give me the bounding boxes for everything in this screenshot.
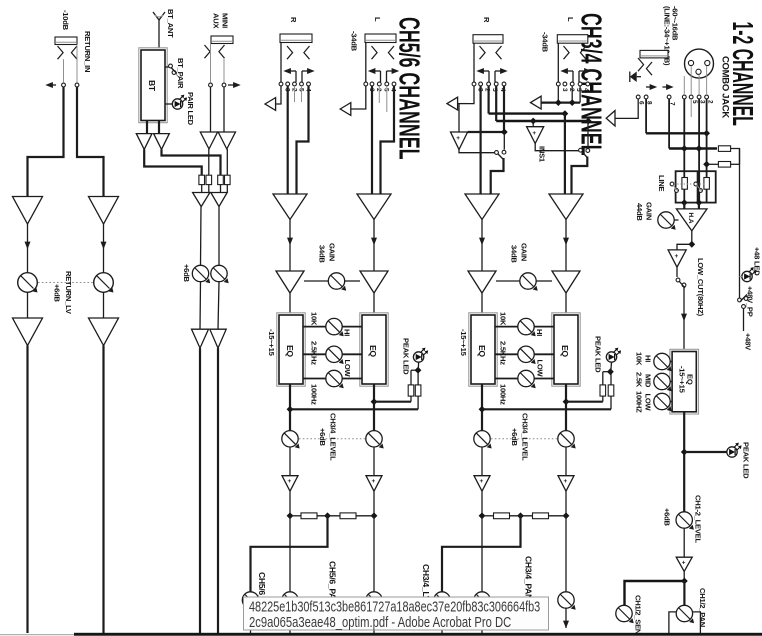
- XLR pin 1: [688, 60, 693, 65]
- resistor CH5/6 mix R: [301, 513, 317, 519]
- wire RETURN sleeve arrow lead: [45, 82, 56, 88]
- wire BT to PAIR LED: [165, 103, 173, 105]
- op-amp AUXBT out R: [210, 329, 226, 348]
- jack CH5/6 R body: [280, 34, 312, 43]
- wire AUX fingers to contacts: [211, 58, 225, 83]
- op-amp CH3/4 R insert buffer: [451, 132, 468, 150]
- resistor CH5/6 peak R: [415, 385, 421, 396]
- svg-text:100Hz: 100Hz: [310, 384, 319, 405]
- resistor CH3/4 mix R: [494, 513, 510, 519]
- EQ box CH5/6 L: [360, 313, 388, 386]
- svg-text:CH3/4_PAN: CH3/4_PAN: [524, 556, 534, 600]
- potentiometer CH5/6 R bottom: [282, 592, 300, 610]
- wire EQ link MID CH3/4: [495, 353, 554, 355]
- svg-text:+6dB: +6dB: [510, 428, 519, 447]
- wire CH3/4 L peak bus: [566, 401, 603, 403]
- wire CH3/4 R preamp to stage2: [479, 220, 485, 272]
- node CH5/6 bus R: [287, 512, 294, 519]
- wire HA out: [691, 231, 693, 244]
- node crossbus lower mid: [530, 118, 537, 125]
- wire peak junction to LED CH3/4: [610, 362, 613, 372]
- wire RETURN jack right wall: [76, 44, 78, 82]
- svg-text:+6dB: +6dB: [663, 508, 672, 527]
- svg-text:BT_ANT: BT_ANT: [166, 9, 175, 38]
- wire CH3/4 bus segs: [482, 515, 566, 517]
- node insert send R: [501, 129, 508, 136]
- potentiometer CH1/2_PAN: [676, 605, 694, 623]
- svg-text:+: +: [288, 478, 292, 485]
- potentiometer GAIN CH5/6: [328, 273, 346, 291]
- svg-text:+48V: +48V: [744, 333, 753, 351]
- contacts CH5/6 R: [279, 82, 310, 86]
- svg-text:LOW: LOW: [536, 360, 545, 378]
- svg-text:GAIN: GAIN: [520, 243, 529, 261]
- wire CH5/6 L jack sleeve wall: [365, 43, 367, 83]
- wire buffer to lowcut: [676, 267, 678, 277]
- wire CH3/4 R jack sleeve wall: [473, 43, 475, 82]
- op-amp BT L buffer: [136, 134, 152, 150]
- wire +48V out: [743, 308, 745, 331]
- svg-text:2: 2: [568, 88, 575, 92]
- jack CH5/6 R finger 1: [287, 46, 293, 59]
- contacts 1-2 TRS: [636, 95, 671, 99]
- svg-text:RETURN_IN: RETURN_IN: [83, 31, 92, 72]
- LED +48: [740, 267, 757, 282]
- node AUX tip contact: [209, 83, 213, 87]
- wire insert send R: [468, 86, 505, 132]
- node sleeve bus 2: [569, 99, 576, 106]
- resistor R-48V-1: [718, 146, 730, 152]
- wire BT box outputs: [147, 121, 159, 134]
- op-amp RETURN R stage2: [89, 318, 119, 346]
- svg-text:EQ: EQ: [368, 345, 378, 357]
- contacts CH3/4 L: [556, 82, 589, 86]
- svg-text:+: +: [675, 253, 679, 260]
- wire RETURN L pot to stage2: [27, 292, 29, 318]
- node RETURN ring contact: [75, 83, 79, 87]
- svg-text:HI: HI: [535, 329, 544, 336]
- jack J-MINIAUX body: [211, 36, 233, 44]
- wire RETURN fingers to contacts: [64, 59, 78, 83]
- svg-text:+48 LED: +48 LED: [753, 247, 762, 276]
- switch box LINE R: [694, 171, 716, 202]
- node AUX ring contact: [222, 83, 226, 87]
- op-amp CH5/6 R buffer: [282, 476, 298, 492]
- EQ box CH3/4 L: [552, 313, 580, 386]
- wire TRS tip down: [668, 99, 670, 149]
- wire stage2 R to gain pot CH3/4: [496, 280, 520, 282]
- module BT box: [139, 48, 167, 123]
- potentiometer CH3/4 LOW: [518, 370, 536, 388]
- wire CH3/4 bottoms to edge: [442, 608, 569, 633]
- wire gain pot to HA: [674, 219, 678, 221]
- wire EQ link LOW: [303, 378, 362, 380]
- node LINE L out: [681, 199, 688, 206]
- potentiometer 1-2 HI: [654, 353, 672, 371]
- wire CH5/6 L peak bus: [374, 401, 411, 403]
- gang dotted link CH3/4 LEVEL: [491, 438, 557, 440]
- XLR pin 2: [696, 69, 701, 74]
- jack CH3/4 R finger 2: [496, 46, 502, 59]
- node HA out: [688, 241, 695, 248]
- arrows CH5/6 L wipers: [368, 68, 399, 82]
- svg-text:LOW: LOW: [343, 360, 352, 378]
- svg-text:+: +: [372, 478, 376, 485]
- svg-text:-10dB: -10dB: [61, 10, 70, 31]
- wire HA out to buffer: [677, 244, 692, 250]
- wire CH5/6 R preamp to stage2: [287, 220, 293, 272]
- svg-text:34dB: 34dB: [318, 245, 327, 263]
- wire lowcut to EQ: [681, 287, 687, 352]
- wire CH5/6 R sleeve to arrow: [276, 86, 281, 104]
- svg-text:4: 4: [583, 88, 590, 92]
- potentiometer 1-2 LOW: [654, 393, 672, 411]
- svg-text:PEAK LED: PEAK LED: [594, 336, 603, 373]
- wire mix R to pot: [218, 207, 220, 266]
- stub contacts CH5/6 L: [379, 86, 387, 112]
- wire CH3/4 R tip to preamp: [480, 86, 482, 194]
- wire XLR3 down: [698, 99, 700, 171]
- wire CH5/6 R down to pot: [289, 516, 291, 592]
- svg-text:+6dB: +6dB: [182, 264, 191, 283]
- svg-text:2.5KHz: 2.5KHz: [499, 341, 508, 365]
- svg-text:-34dB: -34dB: [541, 32, 550, 53]
- node CH3/4 bus L: [563, 512, 570, 519]
- wire XLR2 down: [683, 99, 685, 203]
- svg-text:GAIN: GAIN: [645, 202, 654, 220]
- wire CH3/4 R buffer to bus: [481, 491, 483, 516]
- potentiometer CH5/6 LEVEL R: [282, 431, 300, 449]
- wire CH5/6 R level to buffer: [289, 447, 291, 476]
- wire resistors to mixer L: [202, 185, 209, 193]
- jack J-RETURN switch finger 1: [58, 46, 64, 59]
- wire insert send L: [587, 121, 589, 149]
- resistor CH5/6 peak L: [408, 385, 414, 396]
- svg-text:INS1: INS1: [538, 146, 547, 163]
- svg-text:-15~+15: -15~+15: [459, 329, 468, 357]
- svg-text:R: R: [482, 17, 491, 23]
- op-amp CH3/4 L preamp: [549, 194, 583, 220]
- wire AUX sleeve arrow lead: [228, 82, 241, 88]
- node 1-2 peak junction: [681, 449, 688, 456]
- jack CH3/4 R finger 1: [480, 46, 486, 59]
- node resistor2 tap: [703, 161, 710, 168]
- wire to peak led 1-2: [684, 451, 727, 453]
- diode D1 input protection: [630, 72, 641, 83]
- wire peak resistor legs CH5/6: [411, 370, 418, 409]
- op-amp CH3/4 L insert buffer: [527, 127, 544, 144]
- switch INS R: [495, 150, 506, 159]
- master box outline: [669, 612, 701, 633]
- switch box LINE L: [670, 171, 698, 202]
- pin numbers CH5/6 L: [368, 88, 397, 92]
- wire CH5/6 L ring jog to preamp: [381, 86, 395, 194]
- wire mix L to pot: [200, 207, 203, 266]
- wire EQ link HI CH3/4: [495, 326, 554, 328]
- svg-text:BT_PAIR: BT_PAIR: [176, 58, 185, 89]
- wire CH3/4 R peak bus: [482, 408, 611, 410]
- switch LOW_CUT: [676, 278, 686, 288]
- wire L contacts to sleeve bus: [558, 86, 580, 103]
- wire CH5/6 L stage2 to EQ: [373, 293, 375, 315]
- wire CH3/4 L buffer to bus: [565, 491, 567, 516]
- svg-text:CH3/4_LEVEL: CH3/4_LEVEL: [521, 413, 530, 461]
- wire gain pot to stage2 L: [345, 280, 360, 282]
- wire CH3/4 R down to pot: [481, 516, 483, 592]
- jack 1-2 TRS body: [640, 50, 668, 58]
- LED CH5/6 PEAK: [413, 348, 428, 363]
- op-amp H.A: [676, 209, 707, 231]
- svg-text:1-2 CHANNEL: 1-2 CHANNEL: [727, 22, 759, 126]
- node crossbus upper: [562, 110, 569, 117]
- svg-text:+48V_PP: +48V_PP: [746, 286, 755, 317]
- potentiometer CH1/2_SEND: [616, 605, 634, 623]
- node CH5/6 bus L: [371, 512, 378, 519]
- svg-text:H.A: H.A: [687, 213, 694, 224]
- svg-text:10K: 10K: [310, 312, 319, 326]
- wire AUX L buffer to resistor: [208, 149, 210, 175]
- wire CH5/6 R buffer to bus: [289, 491, 291, 516]
- node CH3/4 bus R: [479, 512, 486, 519]
- contacts CH5/6 L: [364, 82, 396, 86]
- wire RETURN R pot to stage2: [103, 292, 105, 318]
- wire peak junction to LED: [417, 362, 419, 370]
- svg-text:PEAK LED: PEAK LED: [402, 338, 411, 375]
- wire resistor2 leads: [707, 163, 740, 165]
- op-amp AUX L buffer: [200, 132, 217, 149]
- arrows CH5/6 R wipers: [283, 68, 314, 82]
- wire CH3/4 R EQ out: [481, 384, 483, 431]
- svg-text:L: L: [373, 17, 382, 22]
- wire 1-2 to send pot: [625, 581, 685, 606]
- svg-text:CH1/2_PAN: CH1/2_PAN: [698, 588, 707, 627]
- wire switch R to preamp: [491, 158, 504, 194]
- wire CH5/6 R tip to preamp: [287, 86, 289, 194]
- wire CH5/6 L level to buffer: [373, 447, 375, 476]
- jack J-MINIAUX finger 2: [219, 45, 225, 58]
- resistor BT R: [218, 175, 224, 184]
- wire 1-2 EQ out: [683, 412, 685, 512]
- potentiometer CH5/6 LOW: [326, 370, 344, 388]
- jack J-RETURN switch finger 2: [71, 46, 77, 59]
- op-amp CH5/6 L buffer: [366, 476, 382, 492]
- svg-text:LOW: LOW: [644, 394, 653, 412]
- phantom rail: [739, 149, 741, 298]
- wire AUXBT L to bottom: [199, 348, 201, 633]
- svg-text:HI: HI: [644, 355, 653, 362]
- jack 1-2 TRS finger 1: [638, 58, 644, 71]
- wire CH5/6 L buffer to bus: [373, 491, 375, 516]
- svg-text:LOW_CUT(80HZ): LOW_CUT(80HZ): [696, 258, 705, 317]
- potentiometer CH3/4 LEVEL L: [558, 431, 576, 449]
- LED 1-2 PEAK: [727, 443, 742, 458]
- op-amp AUXBT mix R: [211, 193, 227, 207]
- wire CH3/4 L preamp to stage2: [563, 220, 569, 272]
- wire CH5/6 L down to pot: [373, 516, 375, 592]
- wire RETURN R down with jog: [77, 87, 104, 197]
- switch INS L: [579, 148, 590, 157]
- wire level to buffer 1-2: [683, 528, 685, 557]
- wire CH5/6 L preamp to stage2: [371, 220, 377, 272]
- wire XLR pins to contacts: [684, 66, 706, 95]
- wire pot R to stage2: [218, 282, 219, 329]
- node CH5/6 bus mid: [324, 512, 331, 519]
- svg-text:2.5K: 2.5K: [635, 372, 644, 388]
- wire buffer2 to pan node: [683, 571, 685, 581]
- svg-text:EQ: EQ: [285, 345, 295, 357]
- svg-text:5: 5: [382, 88, 389, 92]
- wire CH5/6 R stage2 to EQ: [289, 293, 291, 315]
- svg-text:2.5KHz: 2.5KHz: [310, 341, 319, 365]
- potentiometer CH3/4 MID: [518, 346, 536, 364]
- wire CH3/4 R sleeve to arrow: [468, 86, 475, 104]
- wire CH5/6 L EQ out: [373, 384, 375, 431]
- svg-text:-34dB: -34dB: [350, 31, 359, 52]
- op-amp RETURN R stage1: [89, 197, 119, 225]
- wire CH5/6 R jack sleeve wall: [280, 43, 282, 83]
- jack CH5/6 R finger 2: [304, 46, 310, 59]
- svg-text:2: 2: [375, 88, 382, 92]
- arrows 1-2 wipers: [646, 84, 674, 90]
- arrows CH3/4 R wipers: [476, 68, 507, 82]
- node CH3/4 R EQ junction: [479, 406, 486, 413]
- wire RETURN L to pot: [25, 224, 31, 273]
- svg-text:3: 3: [561, 88, 568, 92]
- svg-text:-15~+15: -15~+15: [678, 366, 687, 394]
- svg-text:10K: 10K: [635, 352, 644, 366]
- wire CH3/4 R level to buffer: [481, 447, 483, 476]
- jack CH5/6 L body: [365, 34, 396, 43]
- svg-text:5: 5: [691, 100, 698, 104]
- wire peak resistor legs CH3/4: [603, 372, 611, 410]
- svg-text:+: +: [480, 478, 484, 485]
- potentiometer CH5/6 MID: [326, 346, 344, 364]
- XLR pin 3: [705, 60, 710, 65]
- node bus y148 a: [681, 145, 688, 152]
- node crossbus lower end: [585, 118, 592, 125]
- jack CH3/4 L finger 1: [564, 46, 570, 59]
- contacts CH3/4 R: [472, 82, 506, 86]
- wire CH3/4 mid routed to send pot: [442, 516, 521, 592]
- node CH5/6 L EQ junction: [371, 398, 378, 405]
- svg-text:CH1-2_LEVEL: CH1-2_LEVEL: [694, 495, 703, 544]
- potentiometer AUX_LV L: [192, 265, 210, 283]
- op-amp CH5/6 R stage2: [276, 271, 304, 293]
- wire RETURN L down with jog: [28, 87, 64, 197]
- op-amp 1-2 buffer: [668, 250, 686, 267]
- potentiometer CH5/6 HI: [326, 318, 344, 336]
- gang dotted link CH5/6 LEVEL: [299, 438, 365, 440]
- svg-text:10K: 10K: [499, 312, 508, 326]
- jack CH3/4 L body: [557, 35, 588, 44]
- svg-text:+: +: [682, 560, 686, 567]
- wire AUX jack left wall: [210, 44, 212, 84]
- wire CH5/6 L sleeve to arrow: [351, 86, 366, 109]
- wire bus y133: [646, 132, 707, 134]
- wire stage2 R to gain pot: [304, 280, 328, 282]
- wire TRS sleeve elbow to arrow: [616, 99, 639, 118]
- svg-text:48225e1b30f513c3be861727a18a8e: 48225e1b30f513c3be861727a18a8ec37e20fb83…: [249, 598, 540, 615]
- wire CH3/4 L stage2 to EQ: [565, 293, 567, 315]
- resistor CH5/6 mix L: [340, 513, 356, 519]
- wire CH3/4 R crossbus lower: [496, 86, 588, 121]
- wire buffer R out to switch: [459, 150, 495, 153]
- EQ box 1-2: [670, 349, 699, 414]
- antenna BT_ANT: [153, 12, 165, 50]
- resistor AUX L: [206, 175, 212, 184]
- taskbar bottom: [0, 633, 762, 636]
- arrow CH5/6 L sleeve: [340, 103, 351, 116]
- EQ box CH3/4 R: [469, 313, 497, 386]
- potentiometer CH3/4 L bottom: [558, 592, 576, 610]
- svg-text:+: +: [456, 135, 460, 142]
- op-amp CH3/4 L buffer: [558, 476, 574, 492]
- node CH5/6 peak junction: [415, 367, 422, 374]
- wire AUX R buffer to resistor: [226, 149, 228, 175]
- svg-text:EQ: EQ: [560, 345, 570, 357]
- stub contacts CH5/6 R: [295, 86, 302, 102]
- svg-text:+: +: [564, 478, 568, 485]
- op-amp CH5/6 R preamp: [273, 194, 307, 220]
- svg-text:+6dB: +6dB: [53, 284, 62, 303]
- svg-text:HI: HI: [343, 329, 352, 336]
- wire CH3/4 L level to buffer: [565, 447, 567, 476]
- wire AUX R to buffer: [223, 87, 225, 132]
- LED CH3/4 PEAK: [606, 348, 621, 363]
- svg-text:5: 5: [575, 88, 582, 92]
- wire RETURN L output to bottom: [26, 346, 28, 634]
- pin numbers CH3/4 L: [561, 88, 590, 92]
- svg-text:RETURN_LV: RETURN_LV: [64, 271, 73, 315]
- svg-text:PEAK LED: PEAK LED: [742, 442, 751, 479]
- jack J-MINIAUX finger 1: [205, 45, 211, 58]
- wire CH3/4 L EQ out: [565, 384, 567, 431]
- gang link LINE switches: [674, 183, 706, 185]
- wire RETURN R output to bottom: [102, 346, 104, 634]
- svg-text:BT: BT: [147, 80, 157, 92]
- wire switch L to preamp: [572, 157, 588, 195]
- potentiometer CH3/4 HI: [518, 318, 536, 336]
- wire CH5/6 L tip to preamp: [371, 86, 373, 194]
- op-amp CH3/4 L stage2: [552, 271, 580, 293]
- svg-text:CH1/2_SEN: CH1/2_SEN: [634, 595, 643, 634]
- wire BT L buffer to resistor: [144, 149, 202, 175]
- wire CH5/6 R EQ out: [289, 384, 291, 431]
- wire CH3/4 L jack sleeve wall: [557, 43, 559, 82]
- contacts 1-2 XLR: [682, 95, 708, 99]
- potentiometer CH3/4 send: [434, 592, 452, 610]
- op-amp AUX R buffer: [218, 132, 235, 149]
- tooltip filename: [244, 597, 549, 631]
- wire BT R buffer to resistor: [162, 149, 221, 175]
- pin numbers 1-2: [638, 100, 714, 106]
- wire CH3/4 R ring crossbus upper: [489, 86, 565, 114]
- svg-text:2c9a065a3eae48_optim.pdf - Ado: 2c9a065a3eae48_optim.pdf - Adobe Acrobat…: [249, 614, 511, 631]
- op-amp 1-2 buffer2: [676, 557, 692, 571]
- wire 1-2 to pan pot: [683, 581, 685, 606]
- op-amp RETURN L stage2: [13, 318, 43, 346]
- resistor R-48V-2: [718, 162, 730, 168]
- op-amp CH3/4 R buffer: [474, 476, 490, 492]
- jack CH3/4 R body: [473, 35, 503, 44]
- svg-text:L: L: [566, 17, 575, 22]
- op-amp CH5/6 L stage2: [360, 271, 388, 293]
- wire XLR pin3 to resistor2: [699, 99, 707, 203]
- pin numbers CH5/6 R: [284, 88, 312, 92]
- svg-text:44dB: 44dB: [635, 203, 644, 221]
- wire LINE outs to HA: [684, 203, 699, 209]
- svg-text:100Hz: 100Hz: [499, 384, 508, 405]
